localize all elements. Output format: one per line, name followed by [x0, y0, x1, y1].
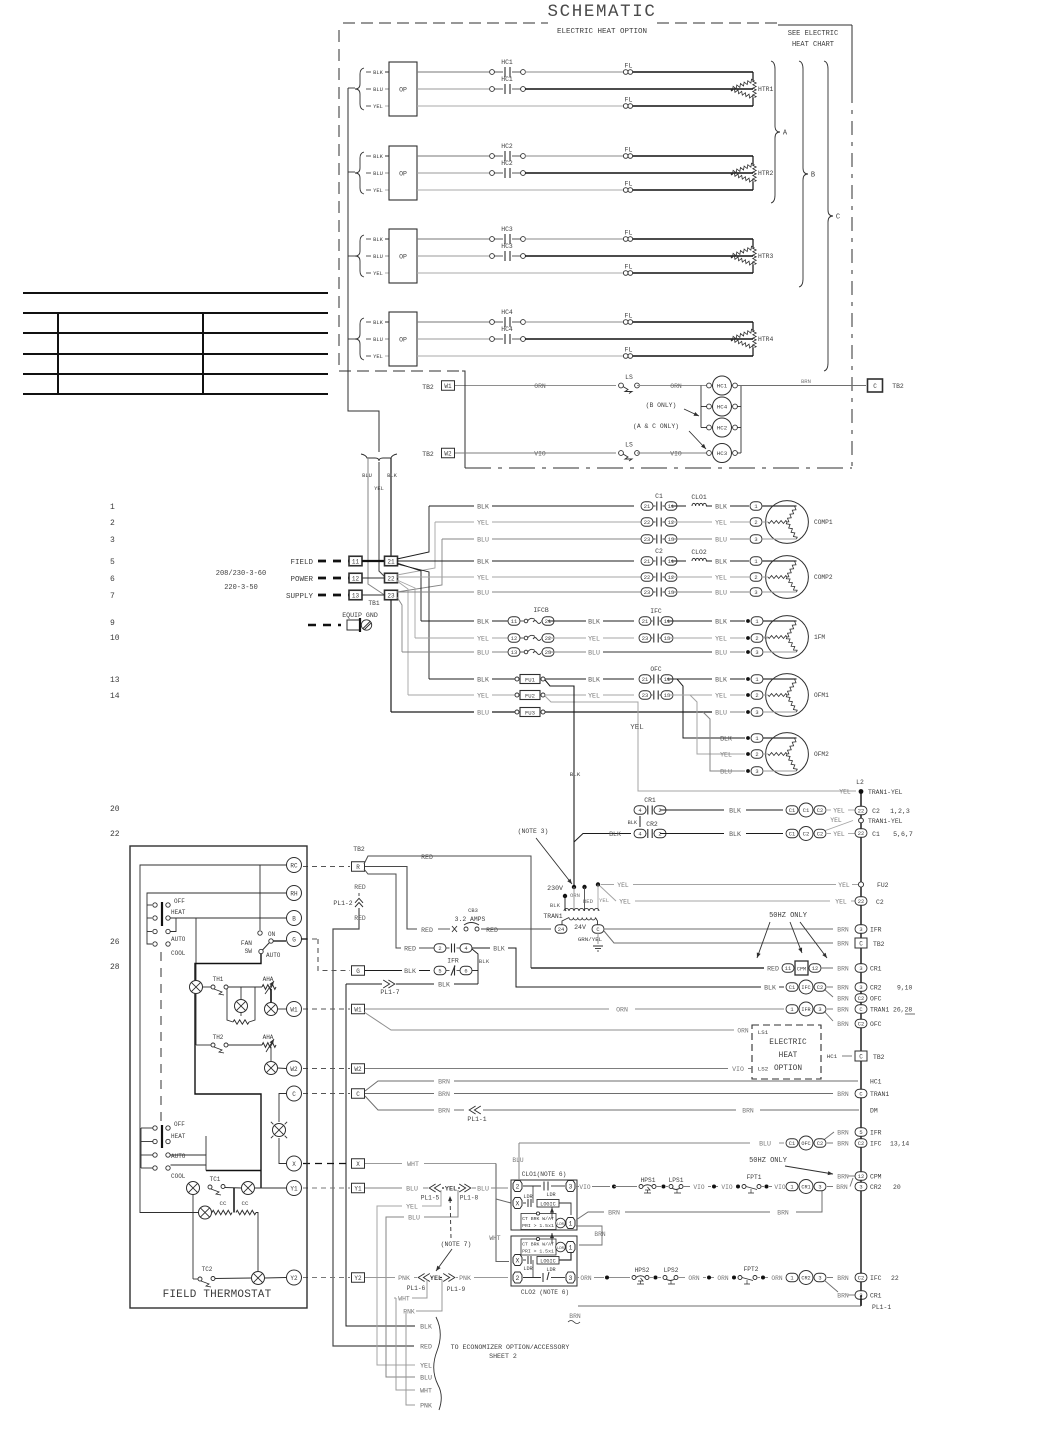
coil CLO1 — [692, 503, 706, 506]
coil CLO2 — [692, 558, 706, 561]
wire BRN bottom to PL1-1 — [578, 1305, 861, 1307]
svg-text:1: 1 — [790, 1185, 793, 1191]
sub lamp branch TH1 — [227, 989, 233, 1022]
svg-text:BLK: BLK — [493, 946, 505, 953]
svg-text:COMP2: COMP2 — [814, 574, 833, 581]
svg-text:X: X — [516, 1258, 520, 1265]
svg-text:YEL: YEL — [833, 831, 845, 838]
terminal W1 thermostat — [287, 1002, 302, 1017]
wire BLU drop to economizer — [424, 1190, 458, 1217]
svg-text:FIELD THERMOSTAT: FIELD THERMOSTAT — [163, 1289, 272, 1301]
svg-text:BLK: BLK — [729, 808, 741, 815]
svg-text:BLK: BLK — [373, 154, 383, 160]
svg-text:OFC: OFC — [801, 1141, 810, 1147]
svg-text:6: 6 — [110, 575, 115, 584]
wire bank 4 BLU to contact — [417, 338, 489, 340]
plug PL1-8 — [459, 1184, 465, 1192]
svg-text:TB2: TB2 — [873, 1054, 885, 1061]
svg-text:HTR4: HTR4 — [758, 336, 774, 343]
svg-text:208/230-3-60: 208/230-3-60 — [216, 570, 266, 578]
terminal X thermostat — [287, 1156, 302, 1171]
svg-text:13: 13 — [668, 537, 674, 543]
svg-text:HC4: HC4 — [501, 309, 513, 316]
wire YEL row IFCB — [415, 637, 474, 639]
wire R RED to circuit breaker — [365, 867, 417, 930]
coil LDR CLO2 — [556, 1242, 566, 1252]
coil HC3 — [707, 451, 712, 456]
svg-text:COMP1: COMP1 — [814, 519, 833, 526]
svg-text:5: 5 — [438, 969, 441, 975]
svg-text:28: 28 — [110, 963, 120, 972]
lamp CC — [199, 1206, 212, 1219]
wire B to HEAT — [170, 917, 286, 919]
svg-text:BLU: BLU — [715, 537, 727, 544]
svg-text:YEL: YEL — [420, 1363, 432, 1370]
svg-text:21: 21 — [387, 558, 395, 565]
svg-text:FL: FL — [625, 230, 633, 237]
svg-text:FPT1: FPT1 — [747, 1174, 762, 1181]
svg-text:TC2: TC2 — [202, 1266, 213, 1273]
svg-text:LOGIC: LOGIC — [540, 1258, 556, 1264]
svg-text:OPTION: OPTION — [774, 1065, 802, 1073]
svg-text:TRAN1: TRAN1 — [870, 1091, 889, 1098]
svg-text:BLK: BLK — [729, 831, 741, 838]
svg-text:FPT2: FPT2 — [744, 1266, 759, 1273]
terminal 3 CR2 on bus — [855, 983, 867, 992]
svg-text:(A & C ONLY): (A & C ONLY) — [633, 423, 679, 430]
svg-text:RED: RED — [354, 915, 366, 922]
transformer secondary leads — [562, 918, 569, 926]
wire CC junction drop — [233, 1188, 235, 1213]
svg-text:12: 12 — [511, 636, 517, 642]
transformer primary winding — [564, 908, 599, 911]
svg-text:HC2: HC2 — [501, 160, 513, 167]
wire BLK row C2 — [397, 560, 474, 562]
electric heat option boundary — [343, 22, 548, 24]
plug PL1-1 — [474, 1106, 480, 1114]
svg-text:SUPPLY: SUPPLY — [286, 593, 314, 601]
transformer secondary winding — [569, 918, 595, 920]
svg-text:C2: C2 — [876, 899, 884, 906]
svg-text:BLK: BLK — [715, 677, 727, 684]
brace heater bank 1 input — [355, 68, 364, 110]
svg-text:CR1: CR1 — [644, 797, 656, 804]
wire heat lamp drop — [195, 918, 197, 981]
svg-text:2: 2 — [438, 946, 441, 952]
svg-text:BLK: BLK — [715, 559, 727, 566]
internal link CLO1 — [532, 1186, 534, 1203]
wire bank 1 after contacts — [525, 71, 623, 73]
svg-text:YEL: YEL — [830, 817, 842, 824]
wire YEL from FU2 to L2 — [545, 696, 856, 791]
svg-text:W2: W2 — [354, 1066, 362, 1073]
svg-text:23: 23 — [642, 636, 648, 642]
wire BLK row FU1 — [429, 678, 474, 680]
terminal 1 IFM — [746, 619, 750, 623]
svg-text:1: 1 — [755, 736, 758, 742]
terminal W2 thermostat — [287, 1061, 302, 1076]
svg-text:B: B — [292, 915, 296, 922]
wire R RED top branch to CPM — [364, 856, 531, 968]
svg-text:TB2: TB2 — [422, 384, 434, 391]
svg-text:3: 3 — [859, 985, 862, 991]
svg-text:CLO1: CLO1 — [691, 494, 707, 501]
svg-text:YEL: YEL — [588, 636, 600, 643]
svg-text:10: 10 — [110, 634, 120, 643]
svg-text:C1: C1 — [803, 807, 810, 814]
terminal Y1 box — [352, 1183, 365, 1193]
dash stub to X — [303, 1163, 350, 1165]
svg-text:C2: C2 — [858, 1141, 864, 1147]
fuse FL bank 4 bottom — [623, 354, 628, 359]
electric heat option small box — [752, 1025, 821, 1079]
svg-text:11: 11 — [668, 504, 674, 510]
svg-text:BLK: BLK — [373, 237, 383, 243]
OP box bank 1 — [389, 62, 417, 116]
svg-text:22: 22 — [644, 520, 650, 526]
svg-text:RED: RED — [421, 854, 433, 861]
contactor C2 contact 23-13 — [641, 588, 653, 597]
svg-text:3: 3 — [569, 1184, 573, 1191]
terminal 22 TB1 — [385, 573, 398, 583]
terminal 21 TB1 — [385, 556, 398, 566]
svg-text:BLK: BLK — [438, 982, 450, 989]
terminal 1 OFM1 — [746, 677, 750, 681]
svg-text:OP: OP — [399, 171, 407, 178]
svg-text:BLK: BLK — [715, 619, 727, 626]
svg-text:OFM2: OFM2 — [814, 751, 829, 758]
svg-text:POWER: POWER — [290, 576, 313, 584]
svg-text:BLU: BLU — [477, 710, 489, 717]
wire bank 1 BLU to contact — [417, 88, 489, 90]
svg-text:B: B — [811, 172, 815, 180]
svg-text:BRN: BRN — [608, 1210, 620, 1217]
svg-text:CLO2 (NOTE 6): CLO2 (NOTE 6) — [521, 1289, 569, 1296]
terminal 2 COMP1 — [750, 518, 762, 527]
terminal 3 OFM1 — [746, 710, 750, 714]
svg-text:BLU: BLU — [477, 1186, 489, 1193]
wire bank 3 BLK to contact — [417, 238, 489, 240]
terminal C TRAN1 on bus — [855, 1005, 867, 1014]
svg-text:PL1-2: PL1-2 — [333, 900, 352, 907]
wire YEL feeder — [379, 462, 386, 578]
terminal C TB2 on bus 1056 — [855, 1051, 867, 1061]
fuse FL bank 3 bottom — [623, 271, 628, 276]
terminal 1 CLO2 — [566, 1242, 575, 1253]
terminal 3 CLO1 — [566, 1181, 575, 1192]
svg-text:23: 23 — [545, 650, 551, 656]
svg-text:BRN: BRN — [777, 1210, 789, 1217]
breaker IFCB pole 2 — [508, 634, 520, 643]
svg-text:3: 3 — [859, 966, 862, 972]
svg-text:HC1: HC1 — [870, 1079, 882, 1086]
svg-text:2: 2 — [755, 636, 758, 642]
svg-text:WHT: WHT — [398, 1296, 410, 1303]
svg-text:OFC: OFC — [870, 996, 882, 1003]
svg-text:21: 21 — [545, 619, 551, 625]
wire LS to HC1 coil ORN — [637, 385, 706, 387]
wire LPS1 VIO — [683, 1186, 690, 1188]
svg-text:TB2: TB2 — [353, 846, 365, 853]
terminal W1 box — [352, 1004, 365, 1014]
svg-text:HEAT CHART: HEAT CHART — [792, 41, 834, 49]
svg-text:BLU: BLU — [373, 337, 383, 343]
svg-text:BLU: BLU — [408, 1215, 420, 1222]
svg-text:1: 1 — [569, 1245, 573, 1252]
svg-text:PNK: PNK — [420, 1403, 432, 1410]
lamp W2 — [265, 1062, 278, 1075]
contact CPM — [782, 964, 794, 973]
svg-text:C2: C2 — [817, 808, 823, 814]
motor OFM2 — [766, 733, 809, 776]
heater HTR2 delta — [731, 163, 753, 174]
wire W2 VIO to LS2 — [365, 1068, 728, 1070]
svg-text:IFC: IFC — [870, 1275, 882, 1282]
svg-text:HC1: HC1 — [717, 383, 728, 390]
svg-text:2: 2 — [754, 520, 757, 526]
wire BLU row IFCB — [402, 651, 474, 653]
fuse FL bank 2 bottom — [623, 188, 628, 193]
svg-text:BRN: BRN — [594, 1231, 605, 1238]
svg-text:VIO: VIO — [774, 1184, 785, 1191]
svg-text:RED: RED — [354, 884, 366, 891]
svg-text:C2: C2 — [858, 1276, 864, 1282]
selector switch cool circles — [153, 1126, 157, 1130]
wire bank 3 to heater — [633, 238, 753, 240]
svg-text:C2: C2 — [858, 996, 864, 1002]
terminal G thermostat — [287, 932, 302, 947]
selector switch heat circles col1 — [153, 903, 157, 907]
svg-text:HC3: HC3 — [717, 450, 728, 457]
svg-text:W1: W1 — [444, 383, 452, 390]
CT BRK box CLO1 — [521, 1214, 556, 1230]
lamp TC1 right — [242, 1182, 255, 1195]
contactor C1 contact 22-12 — [641, 518, 653, 527]
svg-text:FU1: FU1 — [525, 676, 536, 683]
plug PL1-2 — [355, 903, 363, 908]
svg-text:BLK: BLK — [373, 320, 383, 326]
dash stub to W1 — [303, 1008, 350, 1010]
svg-text:13: 13 — [664, 693, 670, 699]
wire 4 BLK jumper to 6 — [472, 949, 478, 984]
svg-text:YEL: YEL — [835, 899, 847, 906]
jumper HEAT-AUTO upper — [170, 918, 176, 932]
svg-text:CLO1(NOTE 6): CLO1(NOTE 6) — [522, 1171, 567, 1178]
svg-text:FL: FL — [625, 264, 633, 271]
wire 12-22 — [362, 577, 385, 579]
equip ground symbol — [308, 624, 341, 627]
wire ON to G — [274, 940, 287, 942]
svg-text:RED: RED — [421, 927, 433, 934]
svg-text:BLU: BLU — [588, 650, 600, 657]
breaker IFCB pole 1 — [508, 617, 520, 626]
wire HC1 coil BRN to TB2 C — [738, 385, 866, 387]
lamp W1 — [265, 1003, 278, 1016]
svg-text:C2: C2 — [872, 808, 880, 815]
svg-text:3: 3 — [818, 1276, 821, 1282]
wire LPS2 ORN — [678, 1277, 685, 1279]
svg-text:L2: L2 — [856, 779, 864, 786]
wire BLU direct to IFM — [603, 651, 712, 653]
svg-text:ORN: ORN — [670, 383, 682, 390]
terminal 2 COMP2 — [750, 573, 762, 582]
terminal 12 TB1 — [349, 573, 362, 583]
svg-text:BRN: BRN — [837, 1293, 849, 1300]
svg-text:22: 22 — [891, 1275, 899, 1282]
svg-text:7: 7 — [110, 592, 115, 601]
svg-text:ORN: ORN — [737, 1028, 748, 1035]
node TRAN1-YEL mid — [824, 821, 853, 832]
svg-text:PRI > 1.5x1: PRI > 1.5x1 — [522, 1223, 554, 1229]
terminal C TB2 on bus — [855, 938, 867, 948]
wire bank 2 to heater — [633, 155, 753, 157]
svg-text:OFF: OFF — [174, 898, 185, 905]
svg-text:2: 2 — [658, 832, 661, 838]
svg-text:22: 22 — [858, 831, 864, 837]
svg-text:HEAT: HEAT — [171, 1133, 186, 1140]
svg-text:FU3: FU3 — [525, 709, 535, 716]
wire W2 VIO to LS — [455, 452, 616, 454]
svg-text:HEAT: HEAT — [171, 909, 186, 916]
svg-text:BRN: BRN — [837, 985, 849, 992]
svg-text:FAN: FAN — [241, 940, 252, 947]
svg-text:ON: ON — [268, 931, 276, 938]
svg-text:11: 11 — [664, 619, 670, 625]
svg-text:21: 21 — [642, 677, 648, 683]
branch to OFM2 BLU — [703, 712, 745, 771]
coil HC4 — [707, 404, 712, 409]
svg-text:BRN: BRN — [801, 378, 811, 385]
selector wiper upper — [161, 902, 163, 926]
svg-text:C1: C1 — [789, 1141, 795, 1147]
terminal 3 CLO2 — [566, 1272, 575, 1283]
svg-text:COOL: COOL — [171, 950, 186, 957]
svg-text:OFM1: OFM1 — [814, 692, 829, 699]
svg-text:RED: RED — [486, 927, 498, 934]
svg-text:CB3: CB3 — [468, 908, 478, 914]
wire FU1 to OFC BLK — [545, 678, 586, 680]
svg-text:2: 2 — [658, 808, 661, 814]
svg-text:FU2: FU2 — [877, 882, 889, 889]
svg-text:BLU: BLU — [406, 1186, 418, 1193]
wire L to X — [279, 1138, 286, 1164]
coil HC1 — [707, 383, 712, 388]
ground GRN/YEL — [597, 933, 599, 944]
svg-text:1: 1 — [755, 677, 758, 683]
riser to row 3 BLU — [397, 539, 442, 592]
wire G out to box edge — [302, 938, 308, 940]
contact CR1 row — [634, 806, 646, 815]
svg-text:YEL: YEL — [599, 897, 609, 904]
svg-text:FL: FL — [625, 97, 633, 104]
svg-text:W1: W1 — [290, 1006, 298, 1013]
contactor C1 contact 23-13 — [641, 535, 653, 544]
svg-text:BLK: BLK — [477, 677, 489, 684]
svg-text:VIO: VIO — [732, 1066, 744, 1073]
svg-text:TB1: TB1 — [368, 600, 379, 607]
contact X CLO2 — [523, 1259, 526, 1261]
wire BLK row C1 — [429, 505, 474, 507]
terminal 5 IFR on bus — [855, 1128, 867, 1137]
riser to row 14 BLU FU3 — [390, 600, 392, 712]
svg-text:24: 24 — [558, 927, 564, 933]
svg-text:WHT: WHT — [420, 1388, 432, 1395]
svg-text:22: 22 — [858, 899, 864, 905]
terminal 1 COMP1 — [750, 502, 762, 511]
svg-text:BLU: BLU — [477, 650, 489, 657]
wire YEL row C1 — [435, 521, 474, 523]
svg-text:BRN: BRN — [837, 1174, 849, 1181]
terminal X box — [352, 1159, 365, 1169]
svg-text:PNK: PNK — [403, 1309, 415, 1316]
wire VIO from CLO1 3 — [576, 1186, 579, 1188]
dash stub to C — [303, 1093, 350, 1095]
wire YEL mid Y1 — [442, 1187, 444, 1189]
svg-text:CR2: CR2 — [646, 821, 658, 828]
wire BLU row to OFC coil — [519, 1142, 750, 1144]
wire C BRN upper to HC1 — [365, 1081, 434, 1091]
coil C1 — [786, 806, 798, 815]
terminal 3 IFR on bus — [855, 925, 867, 934]
svg-text:PL1-1: PL1-1 — [467, 1116, 486, 1123]
svg-text:BLK: BLK — [588, 619, 600, 626]
svg-text:BLU: BLU — [477, 537, 489, 544]
svg-text:2: 2 — [110, 519, 115, 528]
svg-text:BLK: BLK — [570, 771, 581, 778]
dash stub to R — [303, 866, 350, 868]
svg-text:3: 3 — [755, 650, 758, 656]
contact HC4 upper — [490, 320, 495, 325]
wire CLO1 1 BRN to CLO2 1 — [576, 1226, 602, 1245]
branch OFC to OFM2 BLK — [667, 679, 745, 738]
svg-text:HTR2: HTR2 — [758, 170, 774, 177]
riser to row 9 BLK — [397, 563, 421, 621]
svg-text:IFC: IFC — [801, 985, 810, 991]
wire bank 4 BLK to contact — [417, 321, 489, 323]
svg-text:G: G — [292, 936, 296, 943]
wire AHA to W1 lamp — [270, 989, 272, 1003]
branch to CPM 12 — [850, 1178, 853, 1187]
terminal RH — [287, 886, 302, 901]
svg-text:HC4: HC4 — [501, 326, 513, 333]
svg-text:YEL: YEL — [445, 1186, 457, 1194]
svg-text:CR2: CR2 — [870, 985, 882, 992]
svg-text:3.2 AMPS: 3.2 AMPS — [455, 916, 486, 923]
wire YEL to FU2 — [601, 884, 614, 886]
contact HC3 upper — [490, 237, 495, 242]
wire TH2 to AHA2 — [228, 1044, 262, 1046]
svg-text:1: 1 — [569, 1221, 573, 1228]
feeder wire to heater bank braces — [347, 88, 349, 339]
contactor OFC contact 23-13 — [639, 691, 651, 700]
svg-text:YEL: YEL — [477, 636, 489, 643]
svg-text:22: 22 — [387, 575, 395, 582]
motor COMP1 — [766, 501, 809, 544]
svg-text:FL: FL — [625, 181, 633, 188]
wire AHA2 to W2 lamp — [270, 1047, 272, 1061]
svg-text:23: 23 — [387, 592, 395, 599]
svg-text:PNK: PNK — [398, 1275, 410, 1282]
riser to row 13 BLK — [397, 564, 429, 679]
wire CC to Y2 drop — [256, 1213, 258, 1272]
svg-text:(NOTE 3): (NOTE 3) — [518, 828, 549, 835]
svg-text:3: 3 — [818, 1185, 821, 1191]
bracket cool col1 — [140, 1128, 142, 1168]
terminal 3 OFM2 — [746, 769, 750, 773]
svg-text:BLK: BLK — [373, 70, 383, 76]
svg-text:BRN: BRN — [438, 1079, 450, 1086]
svg-text:4: 4 — [638, 808, 641, 814]
